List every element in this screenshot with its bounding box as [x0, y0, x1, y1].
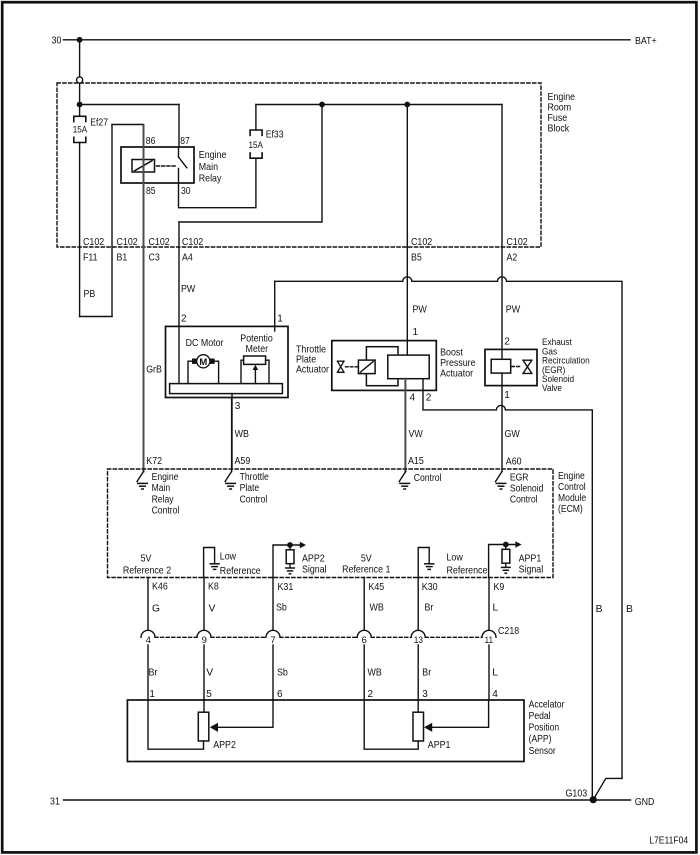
svg-text:4: 4: [410, 393, 416, 404]
svg-text:Module: Module: [558, 493, 587, 504]
svg-text:1: 1: [504, 390, 510, 401]
svg-text:Ef33: Ef33: [266, 130, 284, 141]
svg-text:G: G: [152, 603, 160, 614]
svg-text:Position: Position: [529, 723, 560, 734]
svg-text:L: L: [493, 602, 499, 613]
svg-text:Control: Control: [510, 494, 538, 505]
svg-text:2: 2: [181, 314, 187, 325]
svg-text:WB: WB: [370, 602, 384, 613]
svg-text:K72: K72: [146, 456, 162, 467]
svg-text:Sb: Sb: [276, 602, 287, 613]
svg-text:13: 13: [414, 635, 423, 646]
svg-text:A59: A59: [235, 456, 251, 467]
svg-text:15A: 15A: [73, 124, 88, 135]
svg-text:Br: Br: [425, 602, 434, 613]
svg-text:30: 30: [52, 36, 62, 47]
svg-text:WB: WB: [235, 429, 249, 440]
svg-text:V: V: [206, 668, 213, 679]
svg-text:2: 2: [504, 336, 510, 347]
svg-text:C102: C102: [83, 237, 104, 248]
svg-text:Ef27: Ef27: [90, 117, 108, 128]
svg-text:9: 9: [202, 635, 207, 646]
svg-text:K45: K45: [368, 582, 384, 593]
svg-text:Pedal: Pedal: [529, 711, 551, 722]
svg-text:Reference 1: Reference 1: [342, 564, 391, 575]
svg-text:APP2: APP2: [213, 740, 236, 751]
svg-text:A15: A15: [408, 456, 424, 467]
svg-text:Boost: Boost: [440, 347, 463, 358]
svg-text:GrB: GrB: [146, 365, 162, 376]
svg-text:11: 11: [485, 635, 494, 646]
svg-text:WB: WB: [368, 668, 382, 679]
svg-text:Potentio: Potentio: [240, 333, 273, 344]
svg-text:C102: C102: [182, 237, 203, 248]
svg-text:PW: PW: [506, 304, 521, 315]
svg-text:2: 2: [368, 689, 374, 700]
svg-text:Throttle: Throttle: [240, 472, 270, 483]
svg-text:B1: B1: [117, 253, 128, 264]
svg-text:Signal: Signal: [302, 564, 327, 575]
svg-text:7: 7: [270, 635, 275, 646]
svg-text:4: 4: [492, 689, 498, 700]
svg-text:86: 86: [146, 136, 156, 147]
svg-text:A60: A60: [506, 457, 522, 468]
svg-text:Signal: Signal: [519, 564, 544, 575]
svg-text:DC Motor: DC Motor: [186, 338, 224, 349]
svg-text:3: 3: [422, 689, 428, 700]
svg-text:C102: C102: [507, 237, 528, 248]
svg-text:Control: Control: [558, 482, 586, 493]
svg-text:C3: C3: [149, 253, 161, 264]
svg-text:B5: B5: [411, 253, 422, 264]
svg-text:Room: Room: [548, 102, 572, 113]
svg-text:B: B: [626, 604, 633, 615]
svg-text:V: V: [209, 603, 216, 614]
svg-text:Main: Main: [199, 162, 218, 173]
svg-text:Relay: Relay: [152, 494, 174, 505]
svg-text:PB: PB: [84, 289, 96, 300]
svg-text:Valve: Valve: [542, 383, 562, 394]
svg-text:Br: Br: [149, 668, 158, 679]
svg-text:30: 30: [181, 186, 191, 197]
svg-text:L7E11F04: L7E11F04: [649, 836, 688, 847]
svg-text:Fuse: Fuse: [548, 113, 568, 124]
svg-text:6: 6: [362, 635, 367, 646]
svg-text:Br: Br: [422, 668, 431, 679]
svg-text:4: 4: [146, 635, 152, 646]
svg-text:6: 6: [277, 689, 283, 700]
svg-text:Actuator: Actuator: [296, 365, 329, 376]
svg-text:A2: A2: [507, 253, 518, 264]
svg-text:C102: C102: [411, 237, 432, 248]
svg-text:APP2: APP2: [302, 553, 325, 564]
svg-text:1: 1: [413, 327, 419, 338]
svg-text:APP1: APP1: [519, 553, 542, 564]
svg-text:Main: Main: [152, 483, 171, 494]
svg-text:C218: C218: [498, 626, 519, 637]
svg-text:C102: C102: [117, 237, 138, 248]
svg-text:Meter: Meter: [246, 344, 269, 355]
svg-text:GW: GW: [505, 429, 521, 440]
svg-text:Sb: Sb: [277, 668, 288, 679]
svg-text:Pressure: Pressure: [440, 358, 476, 369]
svg-text:(APP): (APP): [529, 734, 552, 745]
svg-text:Control: Control: [152, 506, 180, 517]
svg-text:Low: Low: [447, 553, 464, 564]
svg-text:K46: K46: [152, 582, 168, 593]
svg-text:Reference: Reference: [447, 565, 488, 576]
svg-text:Engine: Engine: [199, 150, 227, 161]
svg-text:Accelator: Accelator: [529, 699, 565, 710]
svg-text:PW: PW: [181, 284, 196, 295]
svg-text:F11: F11: [83, 253, 98, 264]
svg-text:M: M: [199, 357, 207, 368]
svg-text:Relay: Relay: [199, 173, 222, 184]
svg-text:VW: VW: [409, 429, 424, 440]
svg-text:Low: Low: [220, 551, 237, 562]
svg-text:Engine: Engine: [152, 472, 179, 483]
svg-text:1: 1: [149, 689, 155, 700]
svg-text:K8: K8: [208, 582, 219, 593]
svg-text:87: 87: [180, 136, 190, 147]
svg-text:K31: K31: [278, 582, 294, 593]
svg-text:A4: A4: [182, 253, 193, 264]
svg-text:L: L: [492, 668, 498, 679]
svg-text:5: 5: [206, 689, 212, 700]
svg-text:5V: 5V: [361, 553, 372, 564]
svg-text:APP1: APP1: [428, 740, 451, 751]
svg-text:15A: 15A: [249, 139, 264, 150]
svg-text:85: 85: [146, 186, 156, 197]
svg-text:Actuator: Actuator: [440, 368, 473, 379]
svg-text:K30: K30: [422, 582, 438, 593]
svg-text:31: 31: [50, 796, 60, 807]
svg-text:Engine: Engine: [548, 92, 576, 103]
svg-text:Solenoid: Solenoid: [510, 484, 544, 495]
svg-text:5V: 5V: [141, 553, 152, 564]
svg-text:Control: Control: [414, 473, 442, 484]
svg-text:BAT+: BAT+: [635, 36, 657, 47]
svg-text:GND: GND: [635, 797, 655, 808]
svg-text:1: 1: [277, 314, 283, 325]
svg-text:Block: Block: [548, 123, 570, 134]
svg-text:Engine: Engine: [558, 471, 585, 482]
svg-text:3: 3: [235, 401, 241, 412]
svg-text:C102: C102: [149, 237, 170, 248]
svg-text:G103: G103: [566, 788, 588, 799]
svg-text:PW: PW: [413, 304, 428, 315]
svg-text:Control: Control: [240, 494, 268, 505]
svg-text:(ECM): (ECM): [558, 504, 583, 515]
svg-text:Plate: Plate: [240, 483, 260, 494]
svg-text:K9: K9: [494, 582, 505, 593]
svg-text:Sensor: Sensor: [529, 746, 557, 757]
svg-text:EGR: EGR: [510, 472, 529, 483]
svg-text:Reference 2: Reference 2: [123, 566, 172, 577]
svg-text:B: B: [596, 604, 603, 615]
svg-text:Reference: Reference: [220, 566, 261, 577]
svg-text:2: 2: [426, 393, 432, 404]
